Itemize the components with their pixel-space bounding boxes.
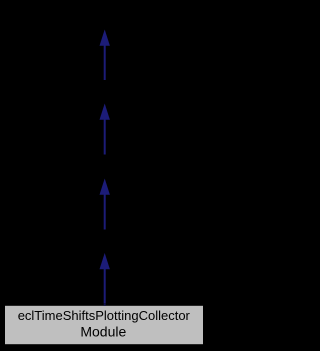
svg-text:eclTimeShiftsPlottingCollector: eclTimeShiftsPlottingCollector: [18, 308, 191, 323]
svg-text:Module: Module: [80, 323, 126, 339]
